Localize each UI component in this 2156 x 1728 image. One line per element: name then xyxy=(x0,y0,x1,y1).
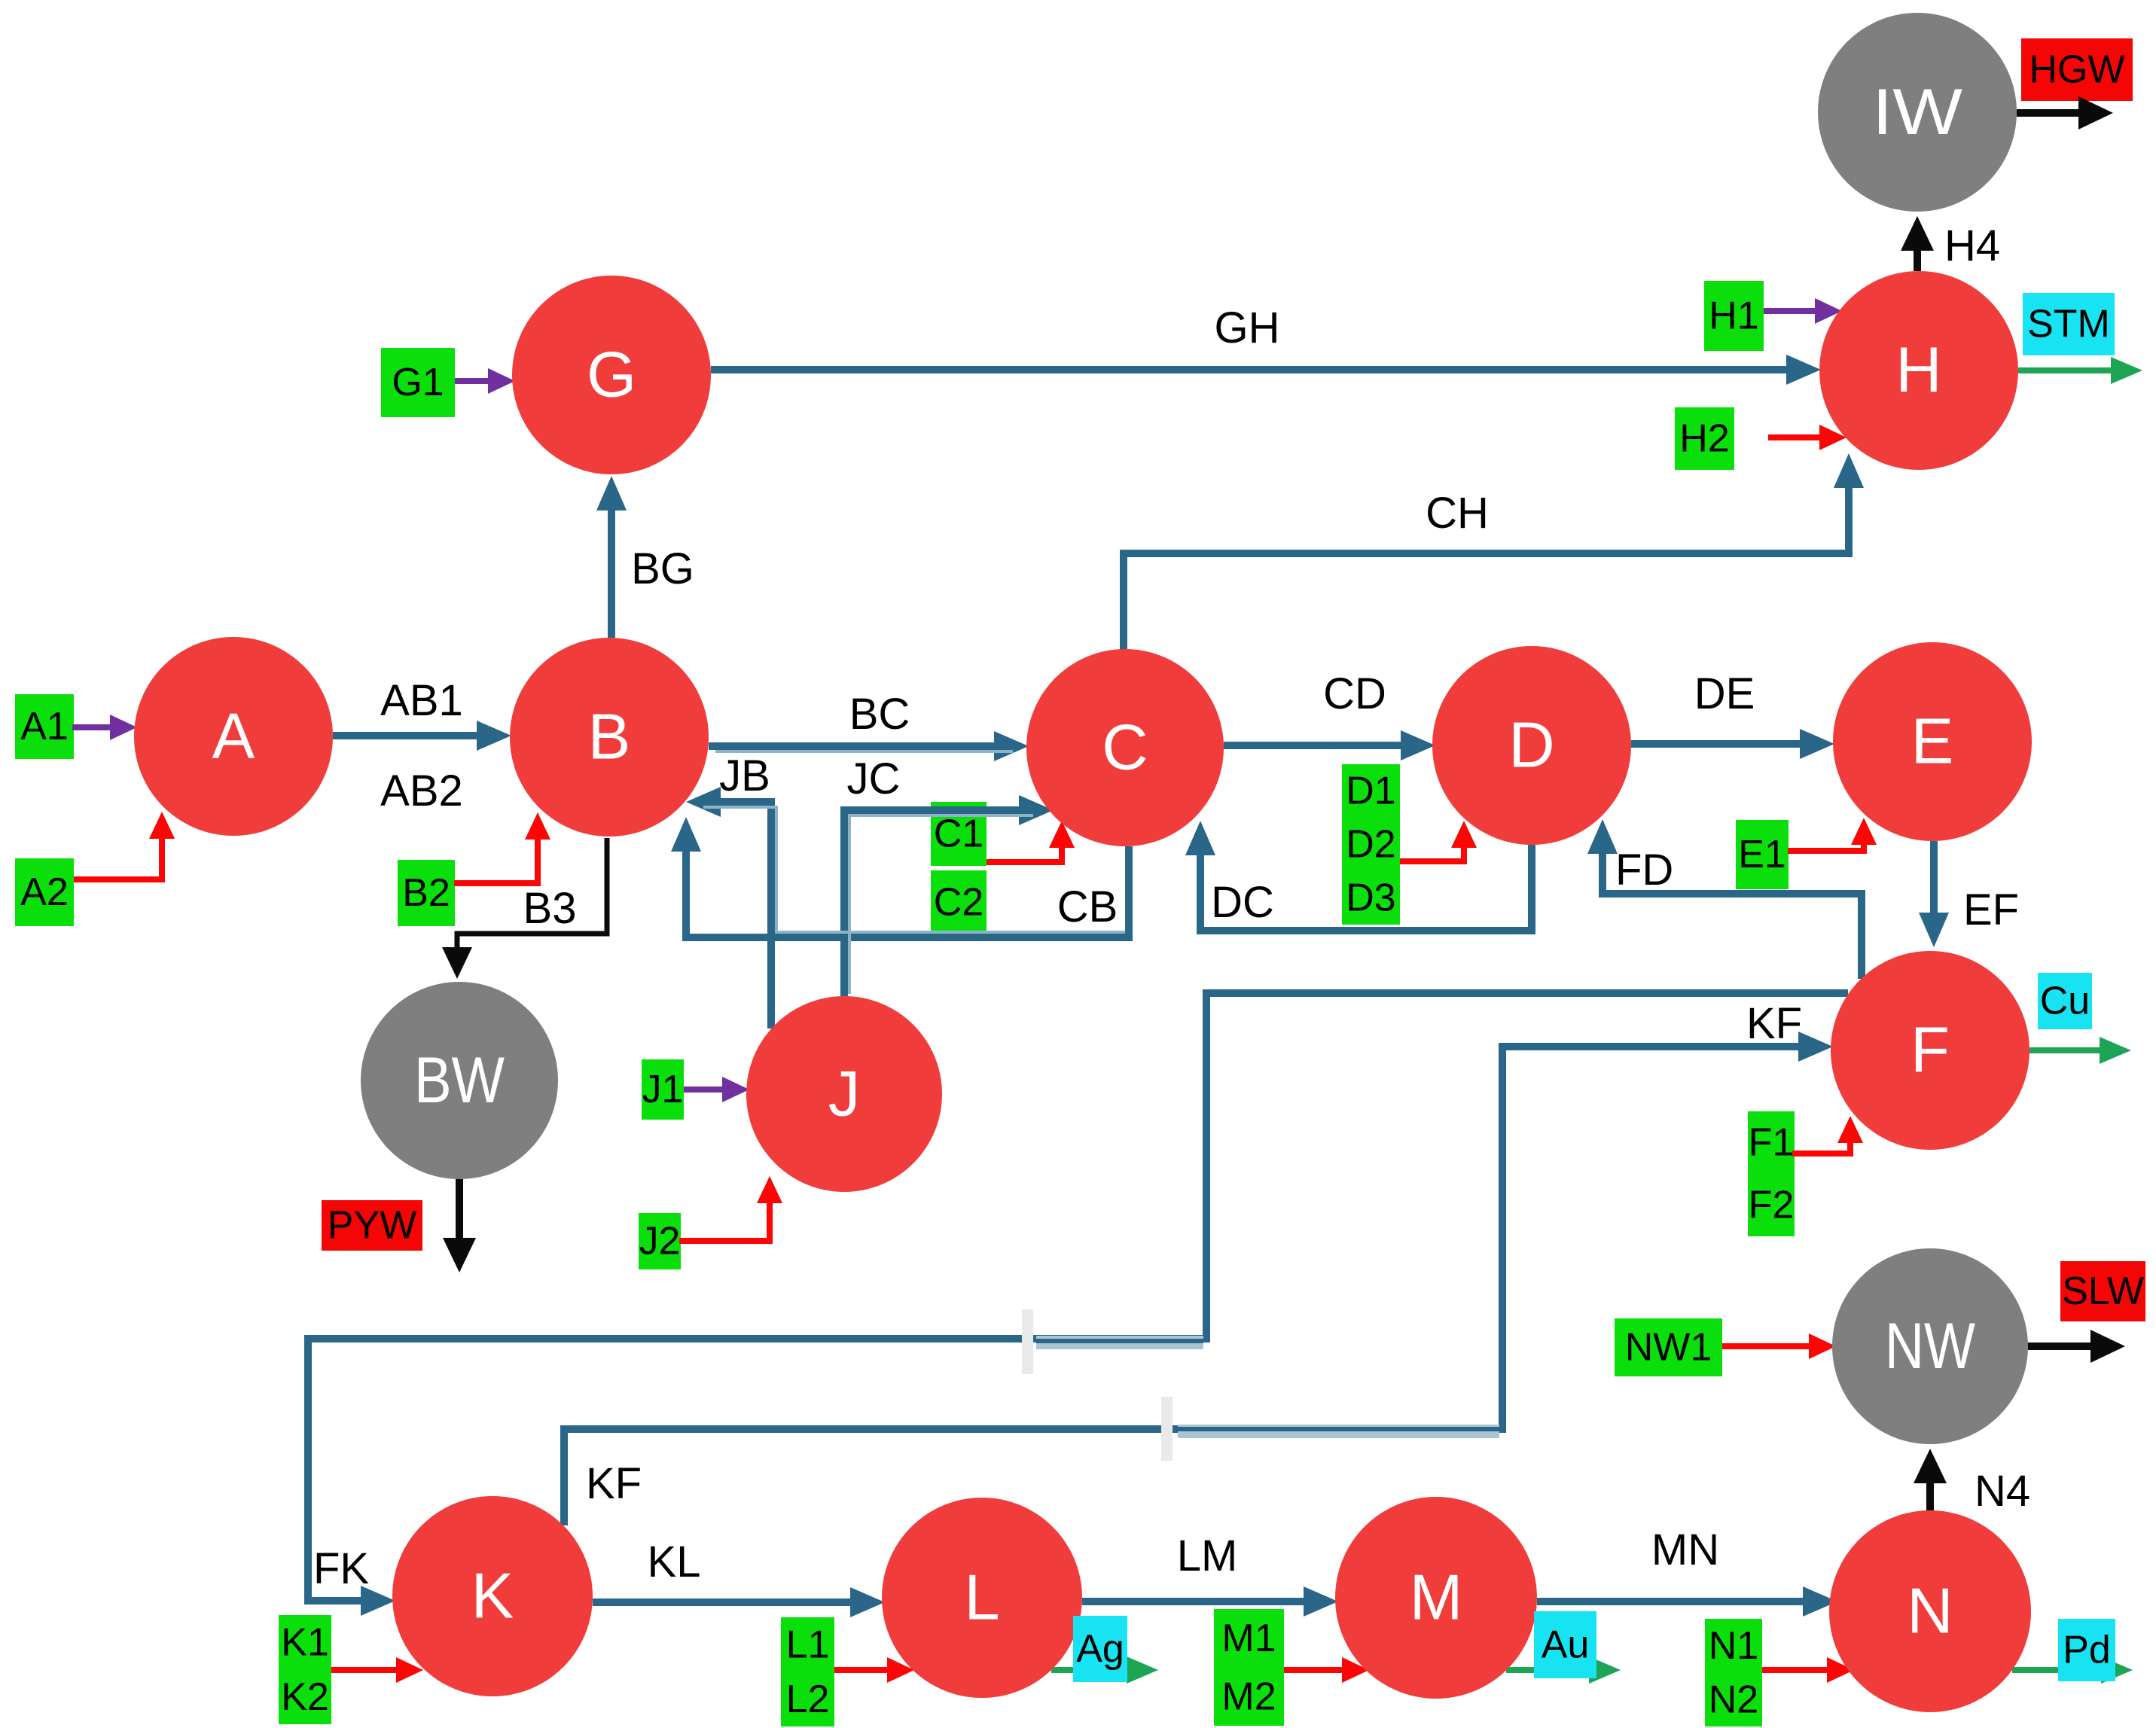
svg-text:J: J xyxy=(828,1059,861,1130)
svg-text:SLW: SLW xyxy=(2062,1269,2144,1313)
svg-text:C1: C1 xyxy=(934,812,983,856)
svg-text:N1: N1 xyxy=(1709,1624,1758,1668)
svg-text:H4: H4 xyxy=(1944,221,2000,270)
svg-text:C2: C2 xyxy=(934,881,983,925)
svg-text:J1: J1 xyxy=(642,1068,684,1111)
svg-text:H1: H1 xyxy=(1709,294,1758,338)
svg-text:STM: STM xyxy=(2027,303,2110,346)
svg-text:FD: FD xyxy=(1615,846,1673,894)
svg-text:M1: M1 xyxy=(1221,1617,1276,1660)
svg-text:FK: FK xyxy=(313,1544,369,1593)
svg-text:BC: BC xyxy=(849,690,910,739)
svg-text:A1: A1 xyxy=(20,705,69,748)
svg-text:HGW: HGW xyxy=(2029,48,2124,92)
svg-text:D1: D1 xyxy=(1346,770,1395,813)
svg-text:L: L xyxy=(964,1562,999,1634)
svg-text:IW: IW xyxy=(1872,76,1962,148)
svg-text:D3: D3 xyxy=(1346,876,1395,920)
svg-text:G: G xyxy=(587,340,636,411)
svg-text:KF: KF xyxy=(1746,999,1802,1048)
svg-text:CH: CH xyxy=(1426,489,1489,538)
svg-text:B: B xyxy=(588,702,631,773)
svg-text:C: C xyxy=(1102,712,1148,784)
svg-text:N2: N2 xyxy=(1709,1678,1758,1721)
svg-text:DC: DC xyxy=(1211,878,1274,927)
svg-text:NW: NW xyxy=(1885,1310,1975,1382)
svg-text:BG: BG xyxy=(631,544,694,593)
svg-text:N: N xyxy=(1907,1576,1953,1647)
svg-text:B2: B2 xyxy=(402,871,450,915)
svg-text:F2: F2 xyxy=(1749,1184,1795,1227)
svg-text:B3: B3 xyxy=(523,884,577,933)
svg-text:F1: F1 xyxy=(1749,1121,1795,1165)
svg-text:PYW: PYW xyxy=(328,1204,416,1248)
svg-text:EF: EF xyxy=(1963,885,2019,934)
svg-text:F: F xyxy=(1911,1015,1950,1086)
svg-text:M2: M2 xyxy=(1221,1675,1276,1718)
svg-text:D2: D2 xyxy=(1346,823,1395,867)
svg-text:MN: MN xyxy=(1651,1525,1719,1574)
svg-text:M: M xyxy=(1410,1562,1463,1634)
svg-text:JC: JC xyxy=(847,754,901,803)
svg-text:NW1: NW1 xyxy=(1625,1326,1712,1370)
svg-text:H2: H2 xyxy=(1679,417,1729,461)
svg-text:CD: CD xyxy=(1323,669,1386,718)
svg-text:Au: Au xyxy=(1542,1623,1590,1667)
svg-text:KL: KL xyxy=(648,1538,701,1586)
svg-text:N4: N4 xyxy=(1975,1467,2030,1516)
svg-text:AB1: AB1 xyxy=(380,676,463,725)
svg-text:GH: GH xyxy=(1215,303,1280,352)
svg-text:JB: JB xyxy=(719,751,770,800)
svg-text:J2: J2 xyxy=(639,1220,681,1263)
svg-text:AB2: AB2 xyxy=(380,766,463,815)
svg-text:DE: DE xyxy=(1694,669,1755,718)
svg-text:K1: K1 xyxy=(281,1620,329,1664)
svg-text:K: K xyxy=(471,1561,514,1632)
svg-text:Ag: Ag xyxy=(1076,1627,1124,1671)
svg-text:A2: A2 xyxy=(20,870,69,914)
svg-text:CB: CB xyxy=(1057,882,1118,931)
svg-text:G1: G1 xyxy=(392,361,444,404)
svg-text:KF: KF xyxy=(586,1459,642,1508)
svg-text:A: A xyxy=(212,701,255,773)
svg-text:Cu: Cu xyxy=(2040,980,2090,1023)
svg-text:Pd: Pd xyxy=(2063,1629,2111,1672)
svg-text:H: H xyxy=(1895,335,1941,407)
svg-text:K2: K2 xyxy=(281,1675,329,1719)
svg-text:LM: LM xyxy=(1177,1531,1238,1580)
svg-text:E1: E1 xyxy=(1738,833,1786,876)
svg-text:BW: BW xyxy=(414,1044,505,1117)
svg-text:L2: L2 xyxy=(786,1678,830,1721)
svg-text:D: D xyxy=(1508,710,1554,782)
svg-text:E: E xyxy=(1911,706,1954,778)
svg-text:L1: L1 xyxy=(786,1623,830,1666)
